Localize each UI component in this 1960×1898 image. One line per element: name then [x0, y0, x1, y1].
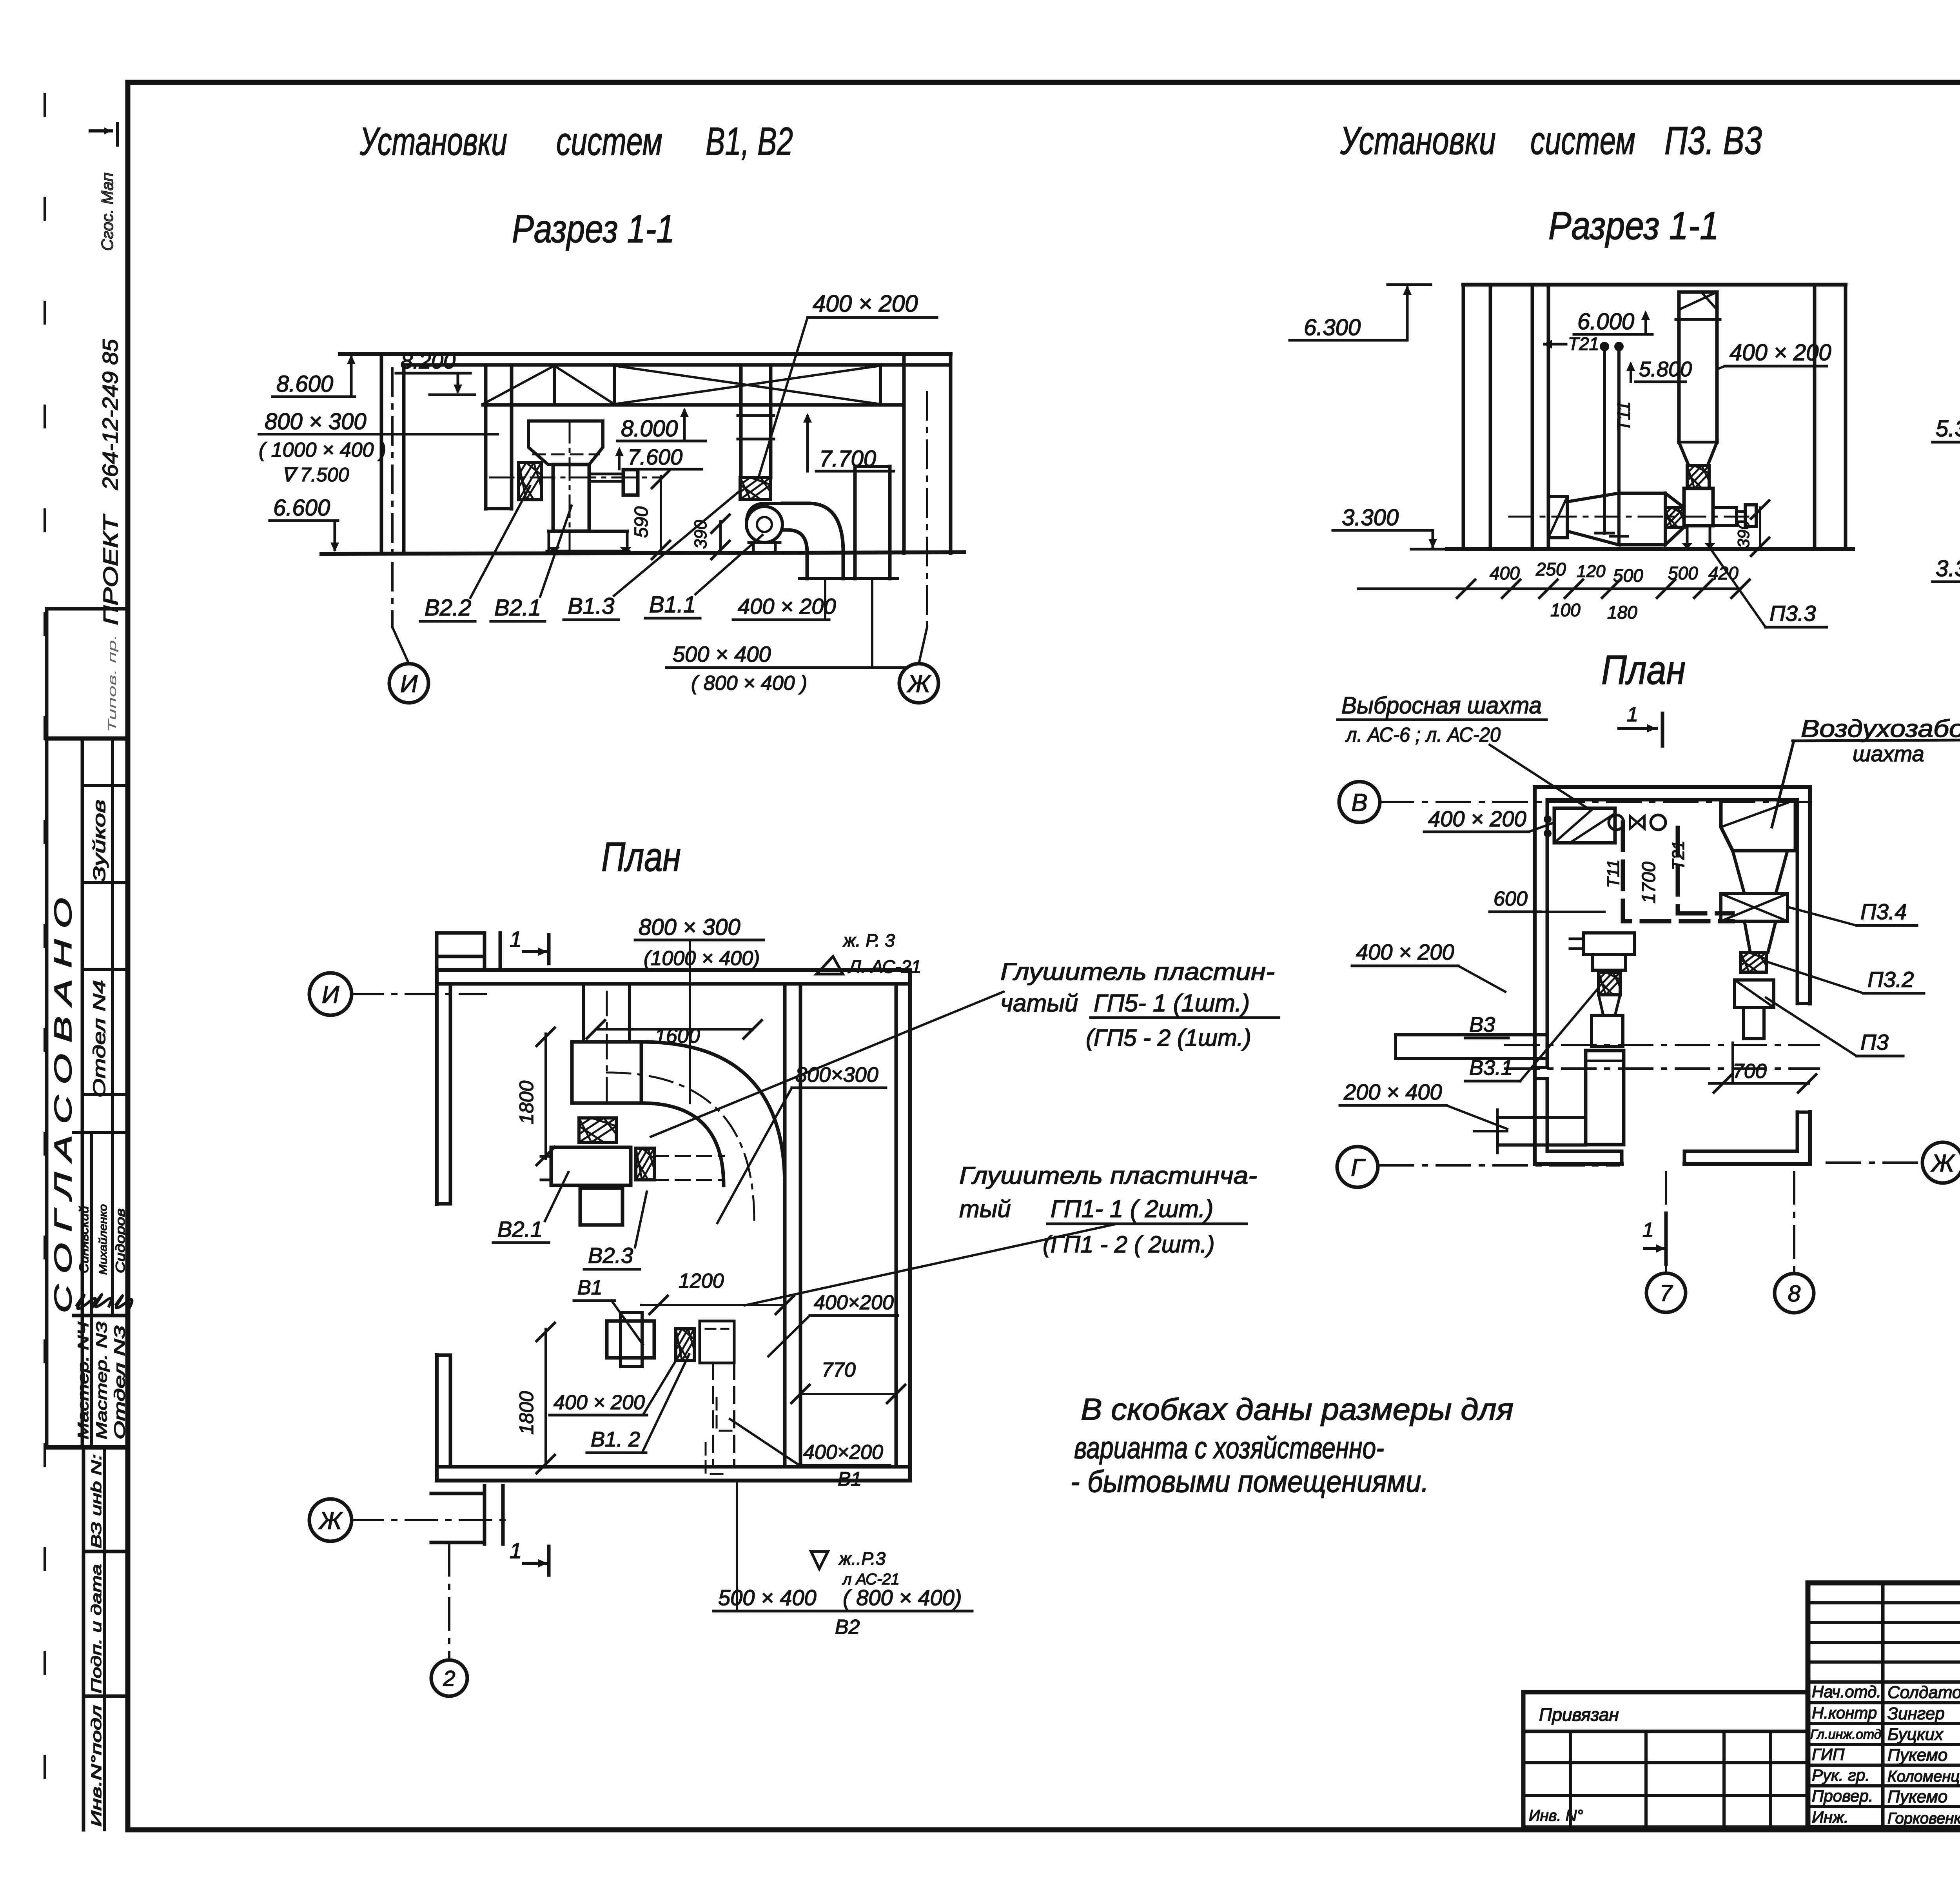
- d2 dim chain ticks: [1457, 580, 1475, 598]
- p2 exhaust shaft diagonal: [1554, 808, 1593, 843]
- svg-text:770: 770: [822, 1359, 856, 1381]
- d2 level 6.000 line: [1574, 333, 1652, 336]
- d1 motor box: [623, 470, 638, 495]
- svg-text:Провер.: Провер.: [1812, 1787, 1873, 1805]
- p2 intake shaft diagonal: [1721, 803, 1788, 827]
- svg-text:Глушитель пластин-: Глушитель пластин-: [1000, 958, 1275, 985]
- signature squiggle 3: [116, 1296, 132, 1308]
- d2 chimney flange: [1676, 318, 1720, 321]
- svg-text:систем: систем: [556, 120, 662, 163]
- svg-text:180: 180: [1607, 602, 1637, 622]
- p1 elbow inner arc: [641, 1103, 724, 1185]
- p1 fan V1 small box: [607, 1321, 654, 1358]
- svg-text:400 × 200: 400 × 200: [1730, 340, 1831, 365]
- attachment table outer: [1523, 1690, 1808, 1695]
- d1 level mark 8.600 line: [272, 396, 355, 398]
- svg-text:л. АС-6 ; л. АС-20: л. АС-6 ; л. АС-20: [1345, 724, 1501, 746]
- d2 ahu centerline: [1509, 516, 1756, 518]
- d2 pipe tops dots: [1600, 342, 1609, 351]
- p2 vozdukh leader: [1772, 741, 1794, 827]
- svg-text:800 × 300: 800 × 300: [265, 409, 367, 434]
- svg-text:5.300: 5.300: [1936, 416, 1960, 441]
- svg-text:1600: 1600: [655, 1025, 700, 1047]
- p2 label V3.1 leader: [1520, 988, 1599, 1081]
- d1 fan centerline: [490, 477, 662, 479]
- p2 exhaust damper circles: [1609, 815, 1624, 830]
- svg-text:1700: 1700: [1639, 862, 1659, 904]
- d2 left wall inner: [1489, 285, 1492, 549]
- d1 right wall outer: [949, 354, 953, 553]
- p1 top wall inner line: [437, 982, 910, 986]
- p2 grid bubble 7: [1646, 1273, 1686, 1312]
- svg-text:1: 1: [510, 927, 522, 951]
- p1 label 400x200 low leader: [730, 1419, 799, 1465]
- svg-text:Инв. N°: Инв. N°: [1529, 1807, 1583, 1824]
- svg-text:Привязан: Привязан: [1539, 1704, 1619, 1725]
- p1 interior shaft wall line 1: [783, 984, 787, 1467]
- svg-text:420: 420: [1708, 563, 1739, 583]
- d1 down duct 400x200 end cap: [800, 577, 851, 580]
- d2 label 400x200 underline leader: [1725, 365, 1827, 368]
- p2 label 400x200 left leader: [1458, 966, 1505, 992]
- p2 label 400x200 top leader: [1529, 823, 1552, 832]
- d2 chimney taper: [1679, 442, 1689, 466]
- svg-text:П3.2: П3.2: [1867, 967, 1914, 992]
- d1 fan vibration feet marks: [549, 547, 560, 553]
- d1 top duct divider 2: [613, 366, 616, 405]
- svg-text:В2.1: В2.1: [497, 1217, 543, 1241]
- titleblock outer left: [1806, 1583, 1811, 1827]
- d1 wall duct 500x400 end cap: [848, 577, 898, 580]
- p1 bottom wall outer: [437, 1479, 910, 1482]
- svg-text:Сидоров: Сидоров: [113, 1208, 127, 1273]
- svg-text:Инж.: Инж.: [1812, 1808, 1849, 1826]
- d1 top duct divider 3: [879, 366, 882, 405]
- svg-text:Т21: Т21: [1669, 840, 1688, 870]
- d2 ahu straight section: [1619, 492, 1665, 495]
- svg-text:500: 500: [1613, 565, 1643, 586]
- p1 top wall outer line: [437, 968, 910, 972]
- p1 label 500x400 leader: [736, 1481, 738, 1611]
- svg-text:систем: систем: [1530, 119, 1635, 163]
- d1 right wall axis: [926, 392, 928, 627]
- svg-text:П3. В3: П3. В3: [1664, 119, 1762, 163]
- d2 floor line: [1447, 547, 1853, 551]
- p1 duct V1 dashed run down: [712, 1363, 714, 1467]
- svg-text:План: План: [1601, 647, 1686, 693]
- d1 elbow outer arc: [808, 503, 843, 552]
- p1 dim 770 line: [800, 1393, 896, 1395]
- d2 ahu expanding cone: [1567, 493, 1619, 545]
- svg-text:В2: В2: [835, 1616, 860, 1639]
- svg-text:В2.2: В2.2: [425, 595, 471, 621]
- svg-text:800×300: 800×300: [795, 1063, 878, 1087]
- p1 grid axis Zh line: [352, 1519, 506, 1521]
- svg-text:400 × 200: 400 × 200: [554, 1391, 645, 1414]
- d2 right wall inner: [1813, 285, 1817, 549]
- border frame top line: [128, 80, 1960, 85]
- svg-text:6.600: 6.600: [273, 495, 330, 521]
- svg-text:В1, В2: В1, В2: [706, 120, 793, 163]
- d1 fan V2.1 base feet: [549, 530, 627, 533]
- p2 grid axis G line: [1380, 1164, 1619, 1167]
- p2 grid bubble 8: [1775, 1274, 1814, 1313]
- signature squiggle 2: [95, 1294, 111, 1306]
- svg-text:Н.контр: Н.контр: [1812, 1704, 1877, 1722]
- svg-text:Типов. пр.: Типов. пр.: [106, 634, 119, 732]
- p1 duct V1 inner dashed elbow 2: [706, 1443, 724, 1474]
- svg-text:ж..Р.3: ж..Р.3: [838, 1548, 886, 1569]
- p1 elbow centerline arc: [607, 1072, 754, 1220]
- svg-text:- бытовыми помещениями.: - бытовыми помещениями.: [1071, 1464, 1429, 1499]
- d2 fan P3.3 box: [1684, 488, 1713, 526]
- p1 label 400x200 right leader: [768, 1316, 810, 1356]
- svg-text:шахта: шахта: [1853, 741, 1924, 766]
- left strip lower verticals: [82, 1447, 85, 1830]
- binding dashed line: [44, 94, 46, 1827]
- left strip row line 2: [82, 881, 128, 884]
- svg-text:400 × 200: 400 × 200: [1428, 806, 1526, 831]
- d1 fan V2.1 hopper dashed line: [533, 454, 599, 455]
- d1 duct V1 flange lines: [738, 414, 774, 417]
- svg-text:В2.3: В2.3: [588, 1243, 633, 1268]
- svg-text:( 800 × 400): ( 800 × 400): [843, 1585, 962, 1610]
- p1 duct V1 inner dashed elbow 1: [717, 1398, 734, 1431]
- svg-text:590: 590: [631, 506, 652, 538]
- attachment table verticals: [1569, 1731, 1572, 1827]
- p2 dim 600 leader: [1541, 911, 1604, 913]
- left strip lower row line 2: [83, 1695, 128, 1698]
- svg-text:Гл.инж.отд: Гл.инж.отд: [1810, 1727, 1882, 1742]
- svg-text:120: 120: [1577, 562, 1606, 581]
- svg-text:( 800 × 400 ): ( 800 × 400 ): [691, 672, 807, 695]
- d1 vertical duct 800x300 right line: [510, 365, 514, 509]
- svg-text:Глушитель пластинча-: Глушитель пластинча-: [959, 1162, 1257, 1189]
- d1 down duct 400x200 lines: [806, 552, 809, 579]
- border frame bottom line: [128, 1827, 1960, 1833]
- svg-text:500 × 400: 500 × 400: [673, 642, 771, 666]
- d1 label 400x200 top underline and leader: [808, 316, 937, 319]
- svg-text:800 × 300: 800 × 300: [639, 915, 740, 940]
- d2 ahu contracting cone: [1665, 493, 1684, 545]
- d2 column line 2: [1547, 285, 1550, 549]
- svg-text:6.300: 6.300: [1304, 315, 1361, 340]
- svg-text:500 × 400: 500 × 400: [718, 1585, 817, 1610]
- p2 grid bubble G: [1337, 1147, 1378, 1187]
- d1 floor line: [321, 552, 964, 554]
- svg-text:В1: В1: [838, 1468, 862, 1490]
- p2 supply cone: [1744, 921, 1776, 953]
- svg-text:250: 250: [1535, 559, 1566, 579]
- svg-text:ГП1- 1 ( 2шт.): ГП1- 1 ( 2шт.): [1051, 1196, 1213, 1223]
- svg-text:Отдел N4: Отдел N4: [90, 980, 109, 1098]
- d2 heater pipes T11 line 2: [1617, 348, 1621, 533]
- svg-text:Зингер: Зингер: [1887, 1704, 1945, 1723]
- d1 left wall inner: [402, 365, 406, 554]
- d1 elbow inner arc: [788, 530, 807, 552]
- p1 label 500x400 bottom underline: [713, 1610, 972, 1613]
- svg-text:Сгос. Мап: Сгос. Мап: [98, 172, 116, 251]
- p2 heater box P3: [1735, 980, 1774, 1007]
- d1 label 500x400 leader: [871, 579, 873, 668]
- svg-text:В1. 2: В1. 2: [591, 1428, 640, 1451]
- d1 dim 590 line: [660, 476, 662, 552]
- p1 elbow outer arc: [641, 1042, 785, 1185]
- p2 label 200x400 leader: [1446, 1105, 1507, 1129]
- p2 fan V3.1 casing: [1592, 1015, 1623, 1047]
- svg-text:Синявский: Синявский: [77, 1206, 91, 1273]
- p1 fan V2.1 lower box: [580, 1188, 622, 1225]
- left strip thick divider: [47, 1445, 128, 1450]
- svg-text:1800: 1800: [515, 1391, 537, 1435]
- svg-text:3.300: 3.300: [1342, 505, 1399, 530]
- svg-text:В скобках даны размеры для: В скобках даны размеры для: [1081, 1392, 1514, 1426]
- p2 bottom wall left segment: [1535, 1162, 1622, 1166]
- d1 label 800x300 leader: [259, 433, 498, 435]
- d2 level 3.300 line: [1333, 529, 1433, 532]
- p2 bottom wall right segment: [1684, 1162, 1810, 1166]
- svg-text:(1000 × 400): (1000 × 400): [644, 947, 760, 970]
- p2 section mark 1 top: [1619, 727, 1656, 730]
- titleblock row line above nach otd: [1808, 1680, 1960, 1684]
- p1 duct transition dashes: [654, 1155, 724, 1157]
- d2 ahu left box: [1548, 497, 1567, 538]
- d1 top duct transition diagonal: [483, 366, 554, 404]
- d1 elbow duct horizontal top: [782, 502, 808, 505]
- svg-text:В1.1: В1.1: [649, 592, 696, 617]
- p2 fan V3.1 round box: [1586, 1051, 1624, 1145]
- p2 label vozdukh underline: [1793, 740, 1960, 741]
- svg-text:Солдатов: Солдатов: [1887, 1683, 1960, 1702]
- p1 label 400x200 left leader: [643, 1350, 682, 1415]
- d1 fan V2.1 inlet hopper: [528, 421, 603, 465]
- d1 exhaust duct V1 left line: [739, 365, 743, 477]
- p2 fan V3 flat box: [1584, 933, 1635, 954]
- titleblock bottom: [1808, 1825, 1960, 1830]
- d1 label 500x400 underline: [666, 666, 906, 669]
- p2 fan V3 box2: [1593, 954, 1626, 970]
- p1 grid axis 2 line: [448, 1544, 450, 1660]
- d2 label P3.3 leader: [1709, 547, 1766, 627]
- p2 intake shaft polygon: [1721, 800, 1795, 851]
- d1 level mark 8.200 line: [396, 372, 470, 375]
- svg-text:Буцких: Буцких: [1887, 1725, 1944, 1744]
- p1 right wall outer: [908, 970, 912, 1481]
- svg-text:Воздухозаборная: Воздухозаборная: [1801, 715, 1960, 742]
- svg-text:В1: В1: [577, 1276, 603, 1299]
- p2 exhaust shaft box: [1554, 808, 1615, 843]
- svg-text:7.600: 7.600: [628, 445, 682, 469]
- titleblock label rows lines: [1808, 1701, 1960, 1704]
- p2 grid axis Zh segment: [1827, 1161, 1921, 1164]
- p2 top wall outer: [1535, 785, 1810, 789]
- p1 duct centerline vertical: [606, 992, 608, 1103]
- d1 vertical duct bottom cap: [486, 507, 512, 510]
- border frame left line: [125, 82, 131, 1830]
- d2 pipe bottom feet: [1595, 532, 1613, 535]
- svg-text:Установки: Установки: [1340, 119, 1496, 163]
- d3 level 5.300 line: [1933, 441, 1960, 444]
- attachment table row line 3: [1523, 1794, 1808, 1797]
- p1 grid bubble I: [309, 973, 352, 1015]
- left strip upper table verticals: [45, 739, 49, 1447]
- p1 dim 1800 upper line: [544, 1034, 547, 1159]
- p1 mark ZhR3 bottom triangle: [811, 1551, 828, 1569]
- p2 left wall outer: [1533, 787, 1537, 1164]
- p1 grid bubble Zh: [309, 1499, 352, 1541]
- attachment table mid row line: [1523, 1761, 1808, 1764]
- svg-text:8.200: 8.200: [401, 348, 456, 373]
- p2 grid bubble Zh: [1922, 1142, 1960, 1183]
- p1 duct dashed box V1: [700, 1321, 734, 1363]
- p1 bottom-left wall stub vertical: [483, 1486, 486, 1544]
- d2 fan P3.3 feet: [1686, 526, 1689, 547]
- svg-text:тый: тый: [959, 1196, 1011, 1223]
- d1 level mark 6.600 line: [270, 519, 338, 522]
- svg-text:1200: 1200: [679, 1270, 724, 1292]
- p2 damper dots: [1544, 815, 1552, 823]
- svg-text:Рук. гр.: Рук. гр.: [1812, 1766, 1870, 1784]
- d1 left wall axis: [391, 368, 394, 627]
- d2 chimney top cap: [1679, 290, 1717, 294]
- p1 label 800x300 underline: [635, 939, 764, 942]
- svg-text:Разрез 1-1: Разрез 1-1: [1548, 204, 1719, 248]
- d1 fan V1.1 base: [752, 543, 755, 552]
- svg-text:ГП5- 1 (1шт.): ГП5- 1 (1шт.): [1094, 990, 1250, 1017]
- svg-text:В3: В3: [1469, 1013, 1495, 1036]
- titleblock outer top: [1808, 1580, 1960, 1586]
- svg-text:∇ 7.500: ∇ 7.500: [281, 464, 349, 486]
- svg-text:чатый: чатый: [1000, 990, 1078, 1017]
- p1 duct to top wall lines: [582, 984, 585, 1042]
- p1 right wall inner: [895, 984, 898, 1467]
- d2 ceiling line: [1463, 283, 1846, 287]
- svg-text:8: 8: [1788, 1281, 1800, 1306]
- p2 label P3.4 leader: [1789, 907, 1857, 925]
- d1 label V1.3 leader: [614, 490, 741, 596]
- svg-text:400 × 200: 400 × 200: [738, 594, 836, 619]
- registration tick top: [90, 129, 111, 132]
- svg-text:Установки: Установки: [359, 120, 507, 163]
- d1 flexible connector V1 hatch box: [740, 477, 771, 499]
- d1 exhaust duct V1 right line: [769, 365, 773, 477]
- p2 wall axis dash horizontal 2: [1505, 1067, 1819, 1070]
- svg-text:П3: П3: [1860, 1030, 1889, 1054]
- d3 level 3.300 line: [1933, 581, 1960, 583]
- svg-text:План: План: [601, 834, 681, 880]
- left strip row line 1: [82, 784, 128, 787]
- svg-text:С О Г Л А С О В А Н О: С О Г Л А С О В А Н О: [50, 898, 77, 1313]
- d1 grid bubble I: [389, 664, 428, 703]
- svg-text:ж. Р. 3: ж. Р. 3: [842, 930, 895, 951]
- svg-text:2: 2: [443, 1666, 455, 1691]
- p1 label V1.2 leader: [642, 1354, 689, 1453]
- p1 connector hatch V1: [676, 1329, 694, 1361]
- p1 label 800x300 leader: [689, 940, 691, 1103]
- p2 grid axis 8 line: [1793, 1172, 1795, 1272]
- d1 left wall outer: [380, 354, 383, 554]
- p1 dim 1200 line: [641, 1304, 785, 1306]
- p1 label glushitel GP5 leader: [651, 992, 1004, 1137]
- d2 fan outlet box right: [1713, 508, 1737, 526]
- attachment table privyazan row line: [1523, 1730, 1808, 1733]
- left strip names column divider: [90, 1132, 93, 1447]
- p2 V3 taper: [1599, 995, 1620, 1015]
- left strip row line 5: [74, 1131, 128, 1134]
- p2 grid bubble B: [1339, 782, 1380, 822]
- d1 label V2.2 leader: [470, 486, 530, 598]
- p1 fan V1 inner box: [621, 1312, 642, 1366]
- svg-text:100: 100: [1550, 600, 1581, 620]
- d1 ceiling slab bottom line: [404, 363, 951, 367]
- p2 left wall lower inner: [1546, 1079, 1549, 1151]
- svg-text:Коломенцев: Коломенцев: [1887, 1768, 1960, 1785]
- p2 connector hatch V3: [1599, 972, 1620, 995]
- d2 column line 1: [1531, 285, 1534, 549]
- signature squiggle 1: [77, 1295, 96, 1309]
- svg-text:Ж: Ж: [1931, 1150, 1955, 1177]
- svg-text:Зуйков: Зуйков: [90, 800, 109, 882]
- d2 dim 390 right: [1759, 508, 1761, 549]
- left strip row line 6: [74, 1314, 128, 1317]
- d1 top duct divider 1: [553, 366, 556, 405]
- d2 dim chain line: [1358, 588, 1740, 590]
- p2 section mark 1 bottom: [1664, 1213, 1668, 1264]
- d1 fan V1.1 volute outline: [746, 503, 784, 524]
- p2 right wall inner: [1796, 800, 1799, 1003]
- d1 dim 390 line: [719, 521, 722, 552]
- p1 grid bubble 2: [431, 1660, 467, 1696]
- svg-text:400 × 200: 400 × 200: [813, 290, 918, 317]
- p1 left wall lower: [435, 1355, 439, 1481]
- d2 left wall outer: [1462, 285, 1465, 549]
- p1 glushitel GP1 leader: [745, 1224, 1117, 1305]
- svg-text:7: 7: [1660, 1281, 1673, 1306]
- d1 label 400x200 bottom leader: [824, 579, 826, 620]
- d1 wall duct 500x400 top cap: [855, 465, 890, 468]
- p1 flexible connector hatch upper: [579, 1118, 616, 1142]
- p1 connector hatch small: [636, 1148, 654, 1180]
- svg-text:Разрез 1-1: Разрез 1-1: [512, 207, 675, 251]
- p2 wall axis dash horizontal: [1505, 1044, 1819, 1046]
- p1 dim 1600 line: [596, 1028, 753, 1031]
- p2 supply duct transition: [1733, 851, 1788, 894]
- svg-text:Пукемо: Пукемо: [1887, 1746, 1947, 1765]
- svg-text:7.700: 7.700: [819, 446, 876, 472]
- d1 grid bubble Zh: [899, 664, 938, 703]
- svg-text:Инв.N°подл: Инв.N°подл: [88, 1705, 104, 1827]
- svg-text:П3.3: П3.3: [1769, 601, 1816, 626]
- svg-text:Т11: Т11: [1604, 859, 1623, 888]
- p1 left wall upper: [435, 970, 439, 1204]
- d1 fan V2.1 body: [553, 465, 589, 531]
- svg-text:600: 600: [1494, 887, 1528, 910]
- p2 right wall outer: [1808, 787, 1812, 1003]
- svg-text:Выбросная шахта: Выбросная шахта: [1341, 692, 1542, 719]
- svg-text:(ГП5 - 2 (1шт.): (ГП5 - 2 (1шт.): [1086, 1025, 1251, 1051]
- svg-text:Ж: Ж: [907, 670, 931, 697]
- d1 level mark 7.600 line: [624, 468, 702, 471]
- svg-text:390: 390: [1734, 520, 1753, 548]
- d1 motor shaft lines: [589, 473, 623, 475]
- svg-text:400: 400: [1490, 563, 1520, 583]
- svg-text:Пукемо: Пукемо: [1887, 1787, 1947, 1806]
- left strip top box: [47, 607, 128, 611]
- svg-text:400×200: 400×200: [803, 1441, 883, 1464]
- d1 vertical duct 800x300 left line: [484, 365, 488, 509]
- svg-text:400×200: 400×200: [814, 1291, 894, 1314]
- svg-text:И: И: [322, 981, 339, 1008]
